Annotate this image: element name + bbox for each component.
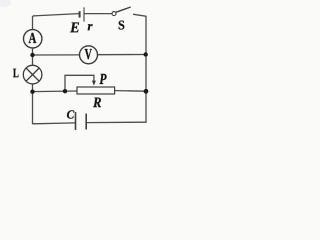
label C [67, 110, 74, 118]
wire voltmeter row left [33, 54, 80, 56]
label r [88, 24, 93, 30]
junction node: ammeter/voltmeter branch [30, 53, 34, 57]
junction node: voltmeter to right rail [144, 52, 148, 56]
wire rheostat row right [115, 90, 146, 93]
wire wiper branch [65, 75, 94, 91]
wire left rail top (corner to ammeter) [33, 16, 34, 30]
label P [99, 74, 106, 84]
junction node: lamp/rheostat branch [30, 90, 34, 94]
wire bottom right (capacitor to corner) [86, 121, 146, 123]
battery E r [80, 7, 84, 21]
label L [13, 69, 18, 78]
wire rheostat row left [33, 90, 78, 93]
wire top left (corner to battery) [34, 14, 79, 16]
capacitor C [76, 112, 87, 130]
label V (voltmeter) [85, 49, 92, 59]
label E [70, 22, 79, 32]
lamp L [23, 65, 42, 84]
wire switch to top-right corner [134, 14, 147, 17]
rheostat R (resistor box) [77, 87, 115, 94]
paper background [0, 0, 180, 143]
wire right rail [145, 17, 147, 123]
wiper arrowhead [92, 81, 96, 86]
voltmeter V1 [80, 46, 98, 64]
switch S [112, 7, 131, 16]
wire battery to switch [84, 13, 112, 15]
junction node: rheostat to right rail [144, 89, 149, 94]
wire lamp to bottom-left corner [33, 84, 34, 124]
wire ammeter to lamp [32, 48, 34, 65]
label R [93, 98, 101, 107]
wire voltmeter row right [97, 54, 145, 56]
ammeter A1 [24, 30, 42, 48]
label S [119, 21, 125, 30]
label A (ammeter) [29, 33, 37, 43]
junction node: wiper branch on rheostat row [63, 89, 67, 93]
wire bottom left (corner to capacitor) [33, 122, 75, 125]
faint blue smudge top-left [0, 0, 11, 7]
